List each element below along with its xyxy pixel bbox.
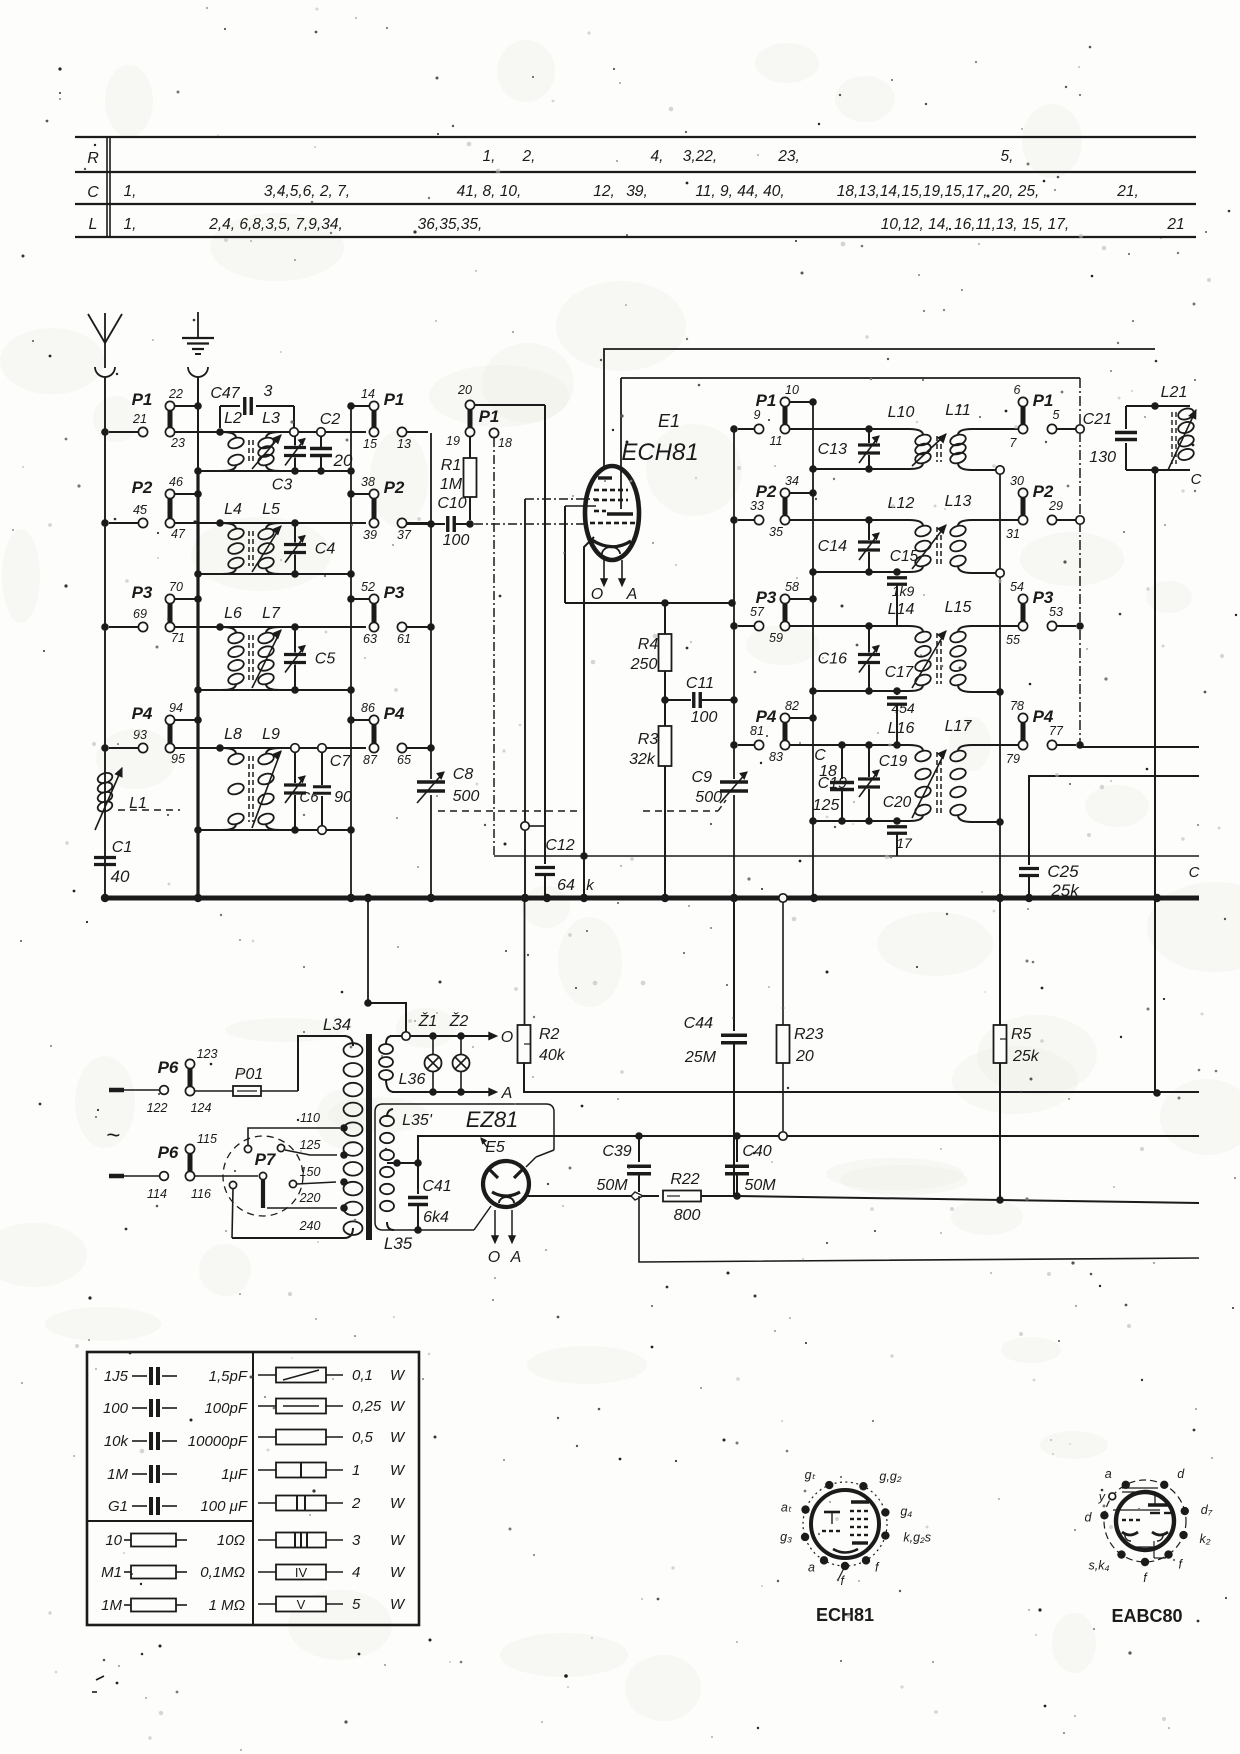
svg-text:L35: L35 — [384, 1234, 413, 1253]
svg-text:g,g₂: g,g₂ — [879, 1469, 901, 1483]
legend box frame — [87, 1352, 419, 1625]
svg-text:3,4,5,6, 2, 7,: 3,4,5,6, 2, 7, — [264, 183, 350, 200]
trimmer capacitor C6 — [284, 744, 319, 834]
svg-text:22: 22 — [168, 387, 183, 401]
bus junction — [996, 894, 1004, 902]
capacitor C17 value 454 — [885, 664, 915, 749]
svg-text:115: 115 — [197, 1132, 217, 1146]
svg-text:EZ81: EZ81 — [466, 1107, 519, 1132]
svg-text:2: 2 — [351, 1495, 361, 1512]
trimmer capacitor C13 — [818, 425, 880, 473]
svg-text:21,: 21, — [1116, 183, 1139, 200]
svg-text:4: 4 — [352, 1564, 360, 1581]
svg-text:1,: 1, — [483, 148, 496, 165]
svg-text:23,: 23, — [777, 148, 800, 165]
svg-text:g₃: g₃ — [780, 1530, 792, 1544]
svg-text:1M: 1M — [440, 476, 463, 493]
wire right rail of band switch — [350, 406, 352, 898]
svg-text:C19: C19 — [879, 753, 908, 770]
wire IF primary bottom — [813, 571, 910, 573]
svg-text:1,5pF: 1,5pF — [209, 1368, 248, 1385]
svg-text:L14: L14 — [888, 601, 915, 618]
bus junction — [427, 894, 435, 902]
svg-text:18,13,14,15,19,15,17, 20, 25,: 18,13,14,15,19,15,17, 20, 25, — [837, 183, 1040, 200]
band switch P2 left section contacts 46/47/45 — [101, 475, 202, 541]
band switch P3 left section contacts 70/71/69 — [101, 580, 202, 645]
tank circuit L21 C21 value 130 — [1083, 384, 1196, 474]
svg-text:250: 250 — [630, 656, 658, 673]
svg-text:d: d — [1177, 1467, 1185, 1481]
svg-text:6k4: 6k4 — [423, 1209, 449, 1226]
bus junction — [543, 894, 551, 902]
wire IF primary bottom — [813, 690, 910, 692]
svg-text:C9: C9 — [692, 769, 713, 786]
EZ81 unit enclosure — [375, 1104, 554, 1230]
tube E1 internal electrodes — [590, 470, 635, 554]
svg-text:50M: 50M — [596, 1177, 628, 1194]
trimmer capacitor C5 — [284, 623, 335, 694]
wire IF secondary bottom to rail — [958, 463, 1000, 470]
IF switch P3 right contacts 54/55/53 — [1006, 580, 1084, 647]
wire IF secondary top to switch — [972, 428, 1018, 430]
svg-text:130: 130 — [1089, 449, 1116, 466]
svg-text:11: 11 — [770, 434, 783, 448]
svg-text:20: 20 — [333, 451, 353, 470]
transformer core — [366, 1034, 372, 1240]
svg-text:C: C — [1191, 471, 1202, 488]
IF transformer L10/L11 — [888, 402, 972, 469]
switch P6 lower contacts 115/116 — [158, 1132, 258, 1201]
svg-text:M1: M1 — [101, 1564, 122, 1581]
svg-text:L9: L9 — [262, 726, 280, 743]
band switch P4 right section contacts 86/87/65 — [347, 701, 428, 767]
wire ground rail — [197, 377, 199, 471]
svg-text:14: 14 — [361, 387, 375, 401]
IF switch P4 right contacts 78/79/77 — [1006, 699, 1084, 766]
svg-text:E1: E1 — [658, 411, 680, 431]
tube E5 filament pins O and A — [488, 1210, 522, 1266]
svg-text:V: V — [297, 1597, 306, 1612]
wire IF secondary top to switch — [972, 519, 1018, 521]
svg-text:P7: P7 — [255, 1150, 277, 1169]
trimmer capacitor C4 — [284, 519, 335, 578]
svg-text:C7: C7 — [330, 753, 352, 770]
svg-text:IV: IV — [295, 1565, 308, 1580]
capacitor C25 value 25k — [1019, 862, 1080, 900]
svg-text:17: 17 — [896, 835, 913, 851]
svg-text:P6: P6 — [158, 1058, 179, 1077]
svg-text:10k: 10k — [104, 1433, 130, 1450]
svg-text:31: 31 — [1006, 527, 1020, 541]
capacitor C41 value 6k4 — [408, 1163, 452, 1234]
component table R/C/L rows — [75, 137, 1196, 237]
svg-text:41, 8, 10,: 41, 8, 10, — [457, 183, 522, 200]
wire dash-dot from contact 18 down — [493, 438, 495, 856]
svg-text:P1: P1 — [479, 407, 500, 426]
svg-text:L17: L17 — [945, 718, 973, 735]
svg-text:C15: C15 — [890, 548, 919, 565]
svg-text:5: 5 — [1053, 408, 1060, 422]
svg-text:G1: G1 — [108, 1498, 128, 1515]
wire output rail dash-dot x1080 — [1079, 378, 1081, 747]
wire bus to transformer center — [364, 898, 406, 1032]
legend wattage row 5 W — [258, 1596, 406, 1613]
transformer taps 110-240 — [232, 1111, 348, 1238]
fuse P01 — [233, 1066, 298, 1096]
wire tuned circuit bottom — [198, 573, 351, 575]
legend capacitor row G1 = 100 &#956;F — [108, 1497, 248, 1515]
svg-text:37: 37 — [397, 528, 412, 542]
svg-text:P4: P4 — [384, 704, 405, 723]
wire IF secondary top to switch — [972, 744, 1018, 746]
svg-text:1k9: 1k9 — [892, 583, 915, 599]
legend wattage row 2 W — [258, 1495, 406, 1512]
stray marks — [92, 1639, 568, 1693]
IF switch P2 right contacts 30/31/29 — [1006, 474, 1084, 541]
svg-text:18: 18 — [819, 763, 837, 780]
svg-text:21: 21 — [132, 412, 147, 426]
wire heater mid y1136 — [418, 1132, 1199, 1163]
IF switch P4 left contacts 82/83/81 — [738, 699, 817, 764]
bus junction — [521, 894, 529, 902]
svg-text:11, 9, 44, 40,: 11, 9, 44, 40, — [695, 183, 784, 200]
svg-text:7: 7 — [1010, 436, 1018, 450]
wire screen top y378 — [621, 377, 1080, 379]
svg-text:34: 34 — [785, 474, 799, 488]
wire IF secondary bottom to rail — [958, 815, 1000, 822]
legend wattage row 4 W — [258, 1564, 406, 1581]
legend capacitor row 100 = 100pF — [103, 1399, 248, 1417]
svg-text:40: 40 — [111, 867, 130, 886]
svg-text:C2: C2 — [320, 411, 341, 428]
svg-text:10: 10 — [785, 383, 799, 397]
wire cathode output y1196 — [524, 1192, 659, 1200]
svg-text:L13: L13 — [945, 493, 972, 510]
svg-text:C: C — [814, 747, 826, 764]
svg-text:100: 100 — [691, 709, 718, 726]
svg-text:77: 77 — [1049, 724, 1064, 738]
svg-text:L8: L8 — [224, 726, 242, 743]
svg-text:W: W — [390, 1532, 406, 1549]
svg-text:1J5: 1J5 — [104, 1368, 129, 1385]
svg-text:L5: L5 — [262, 501, 280, 518]
svg-text:P6: P6 — [158, 1143, 179, 1162]
svg-text:C21: C21 — [1083, 411, 1112, 428]
wire cathode feed x525 down to R2 — [524, 499, 526, 898]
svg-text:1μF: 1μF — [221, 1466, 248, 1483]
svg-text:25M: 25M — [684, 1049, 717, 1066]
wire junction to C12 branch — [529, 825, 545, 827]
svg-text:1M: 1M — [107, 1466, 128, 1483]
svg-text:s,k₄: s,k₄ — [1088, 1559, 1109, 1573]
IF transformer L12/L13 — [888, 493, 972, 572]
svg-text:EABC80: EABC80 — [1111, 1606, 1182, 1626]
svg-text:A: A — [501, 1085, 513, 1102]
legend wattage row 3 W — [258, 1532, 406, 1549]
svg-text:5: 5 — [352, 1596, 361, 1613]
wire tuned circuit top — [175, 747, 366, 749]
legend resistor row 1M = 1 M&#937; — [101, 1597, 245, 1614]
capacitor C12 value 64k — [535, 837, 595, 898]
svg-text:O: O — [488, 1249, 500, 1266]
svg-text:f: f — [841, 1574, 846, 1588]
wire IF primary top — [790, 519, 910, 521]
capacitor C40 value 50M — [725, 1136, 776, 1196]
svg-text:50M: 50M — [744, 1177, 776, 1194]
svg-text:61: 61 — [397, 632, 411, 646]
svg-text:gₜ: gₜ — [805, 1468, 816, 1482]
legend wattage row 0,5 W — [258, 1429, 406, 1446]
svg-text:C6: C6 — [299, 789, 319, 806]
svg-text:W: W — [390, 1367, 406, 1384]
legend capacitor row 10k = 10000pF — [104, 1432, 248, 1450]
band switch P1 left section contacts 22/23/21 — [101, 387, 202, 450]
svg-text:L10: L10 — [888, 404, 915, 421]
bus junction — [1025, 894, 1033, 902]
band switch P2 right section contacts 38/39/37 — [347, 475, 428, 542]
svg-text:38: 38 — [361, 475, 375, 489]
tube E1 filament pins O and A — [591, 558, 638, 603]
svg-text:P2: P2 — [384, 478, 405, 497]
svg-text:f: f — [1143, 1571, 1148, 1585]
wire tuned circuit top — [175, 431, 366, 433]
svg-text:R22: R22 — [670, 1171, 699, 1188]
svg-text:L12: L12 — [888, 495, 915, 512]
resistor R1 value 1M — [440, 437, 477, 520]
svg-text:1,: 1, — [124, 216, 137, 233]
svg-text:71: 71 — [171, 631, 185, 645]
svg-text:f: f — [875, 1560, 880, 1574]
svg-text:C3: C3 — [272, 477, 293, 494]
wire IF primary top — [790, 625, 910, 627]
resistor R23 value 20 — [777, 902, 824, 1140]
svg-text:R5: R5 — [1011, 1026, 1032, 1043]
svg-text:k₂: k₂ — [1200, 1532, 1211, 1546]
svg-text:W: W — [390, 1495, 406, 1512]
svg-text:R3: R3 — [638, 731, 659, 748]
variable capacitor C8 value 500 — [417, 766, 479, 805]
capacitor C18 value 125 — [813, 741, 854, 825]
svg-text:C1: C1 — [112, 839, 132, 856]
svg-text:1M: 1M — [101, 1597, 122, 1614]
svg-text:1: 1 — [352, 1462, 360, 1479]
svg-text:25k: 25k — [1012, 1048, 1040, 1065]
tube socket diagram EABC80 — [1084, 1467, 1212, 1626]
bus junction — [730, 894, 738, 902]
svg-text:L11: L11 — [945, 402, 971, 419]
svg-text:1 MΩ: 1 MΩ — [209, 1597, 245, 1614]
variable inductor L1 — [95, 768, 147, 830]
svg-text:C13: C13 — [818, 441, 847, 458]
svg-text:L35': L35' — [402, 1112, 433, 1129]
svg-text:21: 21 — [1166, 216, 1184, 233]
svg-text:R2: R2 — [539, 1026, 560, 1043]
svg-text:100 μF: 100 μF — [200, 1498, 247, 1515]
capacitor C10 value 100 — [407, 495, 474, 549]
svg-text:ECH81: ECH81 — [816, 1605, 874, 1625]
svg-text:15: 15 — [363, 437, 377, 451]
svg-text:C12: C12 — [545, 837, 574, 854]
trimmer capacitor C19 — [818, 741, 880, 825]
svg-text:1,: 1, — [124, 183, 137, 200]
svg-text:P3: P3 — [132, 583, 153, 602]
svg-text:19: 19 — [446, 434, 460, 448]
capacitor C7 value 90 — [313, 744, 352, 835]
svg-text:100pF: 100pF — [204, 1400, 247, 1417]
svg-text:10000pF: 10000pF — [188, 1433, 248, 1450]
legend wattage row 0,1 W — [258, 1367, 406, 1384]
svg-text:A: A — [626, 586, 638, 603]
svg-text:30: 30 — [1010, 474, 1024, 488]
svg-text:18: 18 — [498, 436, 512, 450]
svg-text:C14: C14 — [818, 538, 847, 555]
svg-text:C41: C41 — [422, 1178, 451, 1195]
svg-text:12,: 12, — [593, 183, 615, 200]
wire output 77 to right margin — [1080, 746, 1199, 748]
svg-text:47: 47 — [171, 527, 186, 541]
wire IF secondary top to switch — [972, 625, 1018, 627]
resistor R4 value 250 — [630, 599, 672, 673]
band switch P3 right section contacts 52/63/61 — [347, 580, 428, 646]
wire contact 20 to vertical — [475, 404, 545, 406]
svg-text:0,5: 0,5 — [352, 1429, 374, 1446]
svg-text:L7: L7 — [262, 605, 281, 622]
svg-text:y: y — [1098, 1490, 1106, 1504]
svg-text:0,1MΩ: 0,1MΩ — [200, 1564, 245, 1581]
svg-text:65: 65 — [397, 753, 411, 767]
band switch P1 section contacts 20/19/18 — [446, 383, 512, 450]
ground bus — [103, 896, 1199, 901]
wire outer rail to C8 — [430, 433, 432, 779]
svg-text:240: 240 — [299, 1219, 321, 1233]
svg-text:C25: C25 — [1047, 862, 1079, 881]
svg-text:R1: R1 — [441, 457, 461, 474]
svg-text:a: a — [1105, 1467, 1112, 1481]
capacitor C20 value 17 — [883, 794, 913, 856]
capacitor C11 value 100 — [665, 675, 738, 726]
wire IF primary top — [790, 428, 910, 430]
wire return line bottom — [639, 1196, 1199, 1262]
band switch P1 right section contacts 14/15/13 — [347, 387, 428, 451]
svg-text:k,g₂s: k,g₂s — [903, 1531, 931, 1545]
svg-text:C39: C39 — [602, 1143, 631, 1160]
svg-text:L34: L34 — [323, 1015, 351, 1034]
legend wattage row 1 W — [258, 1462, 406, 1479]
svg-text:122: 122 — [147, 1101, 168, 1115]
IF transformer L16/L17 — [888, 718, 973, 821]
svg-text:C47: C47 — [210, 385, 240, 402]
wire tuned circuit top — [175, 626, 366, 628]
capacitor C2 value 20 — [310, 411, 353, 475]
svg-text:110: 110 — [300, 1111, 320, 1125]
resistor R5 value 25k — [994, 898, 1040, 1200]
wire IF secondary bottom to rail — [958, 685, 1000, 692]
svg-text:45: 45 — [133, 503, 147, 517]
svg-text:5,: 5, — [1001, 148, 1014, 165]
capacitor C15 value 1k9 — [887, 548, 919, 626]
svg-text:125: 125 — [300, 1138, 321, 1152]
svg-text:C: C — [1189, 864, 1200, 881]
svg-text:39,: 39, — [626, 183, 648, 200]
svg-text:k: k — [586, 877, 595, 894]
bus junction — [347, 894, 355, 902]
svg-text:29: 29 — [1048, 499, 1063, 513]
svg-text:95: 95 — [171, 752, 185, 766]
legend wattage row 0,25 W — [258, 1398, 406, 1415]
svg-text:C16: C16 — [818, 651, 847, 668]
svg-text:70: 70 — [169, 580, 183, 594]
svg-text:R: R — [87, 150, 99, 167]
wire oscillator grid dash-dot y499 — [525, 498, 598, 500]
svg-text:23: 23 — [170, 436, 185, 450]
svg-text:R23: R23 — [794, 1026, 823, 1043]
bus junction — [810, 894, 818, 902]
svg-text:C: C — [87, 184, 99, 201]
svg-text:79: 79 — [1006, 752, 1020, 766]
mains plug lower — [109, 1172, 168, 1201]
svg-text:124: 124 — [191, 1101, 212, 1115]
svg-text:10Ω: 10Ω — [217, 1532, 245, 1549]
IF transformer L14/L15 — [888, 599, 972, 691]
rectifier tube E5 EZ81 — [481, 1138, 529, 1207]
svg-text:125: 125 — [813, 797, 840, 814]
transformer L2/L3 — [216, 410, 281, 471]
svg-text:aₜ: aₜ — [781, 1501, 792, 1515]
svg-text:L4: L4 — [224, 501, 242, 518]
trimmer capacitor C3 — [272, 428, 306, 493]
legend capacitor row 1M = 1&#956;F — [107, 1465, 248, 1483]
legend resistor row M1 = 0,1M&#937; — [101, 1564, 245, 1581]
svg-text:114: 114 — [147, 1187, 167, 1201]
wire left rail of IF switch x734 — [733, 429, 735, 779]
svg-text:81: 81 — [750, 724, 764, 738]
wire screen line x565 — [565, 506, 596, 603]
svg-text:64: 64 — [557, 877, 575, 894]
svg-text:500: 500 — [695, 789, 722, 806]
svg-text:L: L — [89, 216, 98, 233]
svg-text:57: 57 — [750, 605, 765, 619]
bus junction — [101, 894, 109, 902]
svg-text:9: 9 — [754, 408, 761, 422]
svg-text:2,4, 6,8,3,5, 7,9,34,: 2,4, 6,8,3,5, 7,9,34, — [208, 216, 343, 233]
svg-text:3: 3 — [264, 383, 273, 400]
svg-text:220: 220 — [299, 1191, 321, 1205]
svg-text:L6: L6 — [224, 605, 242, 622]
capacitor C1 value 40 — [94, 839, 132, 886]
wire cathode line x584 — [584, 537, 594, 898]
svg-text:53: 53 — [1049, 605, 1063, 619]
wire screen bottom y603 — [565, 602, 732, 604]
wire grid dash-dot from C10 to tube — [474, 523, 586, 525]
svg-text:C40: C40 — [742, 1143, 771, 1160]
wire tuned circuit bottom — [198, 470, 351, 472]
svg-text:E5: E5 — [485, 1139, 505, 1156]
band switch P4 left section contacts 94/95/93 — [101, 701, 202, 766]
bus junction — [661, 894, 669, 902]
svg-text:W: W — [390, 1398, 406, 1415]
svg-text:78: 78 — [1010, 699, 1024, 713]
svg-text:P1: P1 — [1033, 391, 1054, 410]
svg-text:0,25: 0,25 — [352, 1398, 382, 1415]
svg-text:13: 13 — [397, 437, 411, 451]
power transformer L34 primary — [232, 1015, 363, 1238]
wire IF primary bottom — [813, 468, 910, 470]
wire AVC line y856 — [494, 855, 1199, 857]
bus junction — [580, 894, 588, 902]
dial lamps circuit — [390, 1029, 513, 1102]
wire mid rail x813 — [812, 402, 814, 898]
svg-text:4,: 4, — [651, 148, 664, 165]
